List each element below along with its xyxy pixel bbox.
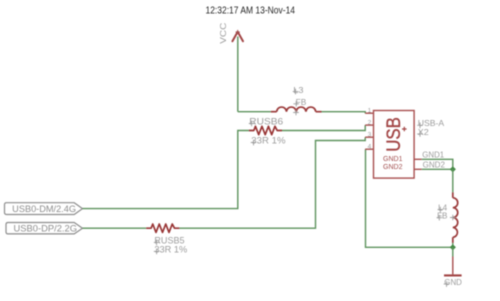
ground symbol GND <box>444 257 462 276</box>
L3 origin cross <box>293 110 299 116</box>
pin stub 3 <box>365 136 373 138</box>
svg-text:12:32:17 AM 13-Nov-14: 12:32:17 AM 13-Nov-14 <box>206 6 296 17</box>
svg-text:VCC: VCC <box>219 22 228 43</box>
svg-text:L3: L3 <box>293 86 304 95</box>
wire pin4 to bottom junction <box>366 149 453 247</box>
wire VCC to L3 <box>238 111 271 113</box>
svg-text:3: 3 <box>368 132 372 139</box>
label L4 <box>438 204 448 213</box>
label FB (L3 value) <box>293 98 306 107</box>
resistor RUSB5 <box>146 224 179 232</box>
L4 origin cross <box>450 215 456 221</box>
label GND <box>444 278 462 287</box>
svg-text:RUSB6: RUSB6 <box>249 116 283 127</box>
svg-text:2: 2 <box>368 120 372 127</box>
wire GND2 to junction <box>422 168 453 170</box>
VCC supply symbol <box>232 32 243 41</box>
label FB (L4 value) <box>437 212 448 221</box>
net flag USB0-DP/2.2G <box>6 223 83 234</box>
wire DP to RUSB5 <box>83 227 147 229</box>
label USB-A <box>417 119 445 128</box>
wire GND1 to junction <box>422 159 453 169</box>
svg-text:FB: FB <box>296 98 307 107</box>
pin stub 4 <box>365 148 373 150</box>
svg-text:GND: GND <box>444 278 462 287</box>
wire VCC vertical <box>237 37 239 112</box>
svg-text:GND2: GND2 <box>423 160 446 169</box>
svg-text:33R 1%: 33R 1% <box>154 244 187 255</box>
wire RUSB6 to pin2 with jog <box>282 125 365 130</box>
svg-text:X2: X2 <box>418 128 430 137</box>
pin stub GND1 <box>414 158 422 160</box>
resistor RUSB6 <box>249 126 282 134</box>
wire RUSB5 to pin3 with jog <box>179 137 365 228</box>
USB connector X2 body <box>374 111 415 179</box>
label RUSB6 <box>249 116 283 127</box>
USB plus sign <box>402 127 407 132</box>
pin stub GND2 <box>414 168 422 170</box>
pin stub 2 <box>365 124 373 126</box>
wire L3 to pin1 with jog <box>322 112 366 114</box>
inductor L3 <box>271 107 322 112</box>
inductor L4 <box>453 192 458 243</box>
junction at GND2 <box>450 166 456 172</box>
net flag USB0-DM/2.4G <box>5 203 83 215</box>
wire L4 to bottom junction <box>452 243 454 247</box>
svg-text:4: 4 <box>368 144 372 151</box>
label L3 <box>293 86 304 95</box>
svg-text:USB0-DM/2.4G: USB0-DM/2.4G <box>12 204 76 214</box>
svg-text:FB: FB <box>437 212 447 221</box>
wire junction to GND <box>452 247 454 256</box>
svg-text:GND1: GND1 <box>422 150 444 159</box>
svg-text:33R 1%: 33R 1% <box>251 136 286 147</box>
label 33R 1% (RUSB6 value) <box>251 136 286 147</box>
svg-text:GND2: GND2 <box>383 162 403 171</box>
svg-text:USB: USB <box>383 117 405 152</box>
pin stub 1 <box>365 112 373 114</box>
wire DM net <box>83 131 249 209</box>
svg-text:1: 1 <box>368 108 372 115</box>
label X2 <box>417 128 429 137</box>
label 33R 1% (RUSB5 value) <box>154 244 188 255</box>
junction at L4 bottom <box>450 244 456 250</box>
svg-text:USB0-DP/2.2G: USB0-DP/2.2G <box>14 224 78 234</box>
label RUSB5 <box>154 235 185 246</box>
wire junction to L4 <box>452 169 454 192</box>
